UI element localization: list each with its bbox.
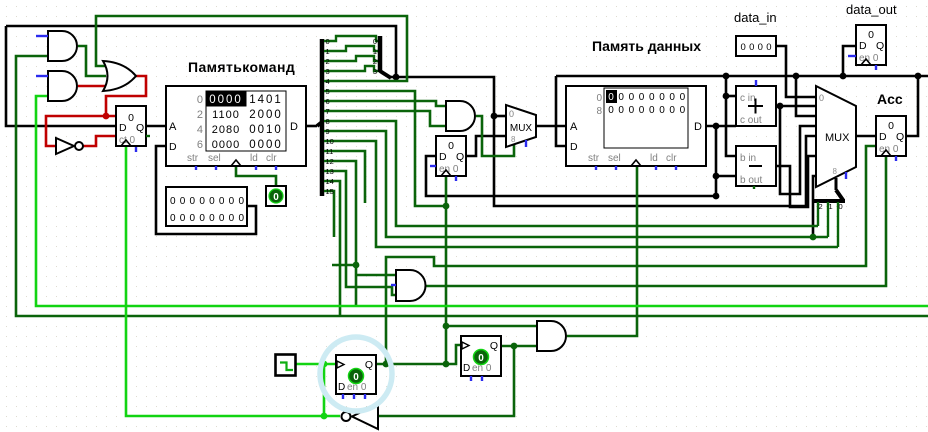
wire bit1 staircase bbox=[326, 46, 380, 51]
svg-text:0: 0 bbox=[819, 93, 824, 103]
node in5 tap bbox=[810, 234, 817, 241]
unconnected pin stub FF1 clr bbox=[455, 176, 457, 181]
svg-text:D: D bbox=[694, 121, 702, 133]
subtractor SUB1 bbox=[736, 146, 776, 189]
pin data_in bbox=[734, 10, 777, 56]
unconnected pin stub FF2 south pin bbox=[470, 376, 472, 381]
svg-text:0: 0 bbox=[448, 140, 454, 152]
wire bit6 to AND3b in1 bbox=[326, 101, 446, 106]
wire AND3 out to Acc clock bbox=[426, 156, 886, 286]
unconnected pin stub FF3 south pin bbox=[364, 394, 366, 399]
wire counter Q to ROM A bbox=[146, 125, 166, 128]
wire ROM D-out to SPL1 bbox=[306, 125, 317, 128]
wire AND1 out to OR1 bbox=[78, 46, 106, 76]
NOT gate NOT1 bbox=[56, 138, 74, 154]
svg-text:2: 2 bbox=[197, 109, 203, 121]
node adder A branch bbox=[723, 93, 730, 100]
multiplexer MUX1 (address select) bbox=[506, 105, 536, 147]
counter U1 (program counter) bbox=[116, 106, 150, 146]
svg-text:0: 0 bbox=[629, 105, 635, 116]
svg-text:0: 0 bbox=[273, 192, 279, 203]
wire AND3b out to MUX1 select bbox=[476, 116, 514, 156]
svg-text:0: 0 bbox=[680, 92, 686, 103]
wire y326 to AND4 in1 bbox=[446, 325, 537, 328]
svg-text:0 0 0 0 0 0 0 0: 0 0 0 0 0 0 0 0 bbox=[170, 213, 244, 224]
svg-text:D: D bbox=[570, 141, 578, 153]
svg-text:Q: Q bbox=[456, 151, 464, 163]
node FF3 Q tap x446 bbox=[443, 361, 450, 368]
unconnected pin stub FF2 south pin bbox=[481, 376, 483, 381]
node clock net y206 bbox=[443, 203, 450, 210]
memory RAM1 Память данных bbox=[566, 38, 706, 166]
unconnected pin stub AND3 in2 bbox=[391, 284, 396, 286]
unconnected pin stub data_out clr bbox=[875, 65, 877, 70]
svg-text:clr: clr bbox=[266, 153, 277, 164]
node MUX2 in2 branch bbox=[793, 73, 800, 80]
svg-text:0: 0 bbox=[639, 105, 645, 116]
svg-text:str: str bbox=[187, 153, 199, 164]
wire RAM D-out bbox=[706, 125, 736, 128]
unconnected pin stub AND2 in1 bbox=[36, 75, 48, 77]
unconnected pin stub Acc clr bbox=[895, 156, 897, 161]
svg-text:D: D bbox=[290, 121, 298, 133]
unconnected pin stub FF3 south pin bbox=[353, 394, 355, 399]
svg-text:data_in: data_in bbox=[734, 10, 777, 25]
svg-text:9: 9 bbox=[326, 127, 330, 136]
svg-text:D: D bbox=[463, 363, 470, 374]
AND gate AND2 bbox=[48, 71, 77, 101]
wire FF3 Q to FF2 D bbox=[376, 345, 461, 364]
svg-text:6: 6 bbox=[197, 139, 203, 151]
wire NOT1 out (red) bbox=[83, 136, 116, 146]
wire AND2 in2 / y306 line bbox=[36, 96, 928, 306]
wire select leg0 bbox=[837, 202, 839, 247]
svg-text:Q: Q bbox=[136, 122, 144, 134]
svg-text:0: 0 bbox=[128, 112, 134, 124]
svg-text:1: 1 bbox=[829, 202, 833, 211]
wire sub out U loop to MUX2 in bbox=[776, 156, 816, 207]
svg-text:b in: b in bbox=[740, 153, 756, 164]
svg-text:8: 8 bbox=[596, 106, 602, 117]
node FF2 Q tap bbox=[511, 343, 518, 350]
svg-text:0: 0 bbox=[669, 105, 675, 116]
splitter SPL1 16-bit fanout bbox=[317, 37, 334, 196]
unconnected pin stub RAM ctrl pin bbox=[595, 166, 597, 170]
wire FF2 Q to AND4 in2 bbox=[501, 345, 537, 348]
AND gate AND4 bbox=[537, 321, 566, 351]
svg-text:4: 4 bbox=[197, 124, 203, 136]
unconnected pin stub MUX2 enable bbox=[845, 172, 847, 179]
svg-text:0: 0 bbox=[839, 202, 843, 211]
svg-text:1: 1 bbox=[326, 47, 330, 56]
svg-text:sel: sel bbox=[608, 153, 621, 164]
wire AND3 in1 feed bbox=[356, 274, 396, 277]
svg-text:0: 0 bbox=[649, 105, 655, 116]
svg-text:1401: 1401 bbox=[249, 94, 283, 106]
svg-text:clr: clr bbox=[666, 153, 677, 164]
node Acc Q feedback bbox=[915, 73, 922, 80]
node bit12 tap bbox=[353, 262, 360, 269]
svg-text:ld: ld bbox=[650, 153, 658, 164]
svg-text:0: 0 bbox=[680, 105, 686, 116]
unconnected pin stub counter clr bbox=[135, 147, 137, 152]
svg-text:8: 8 bbox=[833, 167, 838, 176]
svg-text:Памятькоманд: Памятькоманд bbox=[188, 59, 295, 75]
svg-text:en 0: en 0 bbox=[472, 363, 492, 374]
node clock tap bbox=[321, 361, 328, 368]
svg-text:0: 0 bbox=[649, 92, 655, 103]
svg-text:Q: Q bbox=[876, 40, 884, 52]
wire bit15 down to y306 bbox=[326, 191, 334, 237]
wire Acc bus y=76 bbox=[556, 75, 928, 78]
wire Acc Q to bus bbox=[906, 76, 918, 136]
svg-text:Память данных: Память данных bbox=[592, 38, 701, 54]
unconnected pin stub data_out en bbox=[848, 55, 856, 57]
node bus to MUX1 in0 bbox=[491, 113, 498, 120]
wire b-in2 feed bbox=[716, 175, 736, 178]
svg-text:1100: 1100 bbox=[212, 109, 240, 121]
wire clock CLK1 to FF3 bbox=[295, 363, 336, 366]
pin PIN0 value 0 bbox=[266, 186, 286, 206]
svg-text:2: 2 bbox=[819, 202, 823, 211]
wire counter clock from y416 bbox=[126, 147, 340, 416]
unconnected pin stub ROM ctrl pin bbox=[215, 166, 217, 170]
wire ROM clock to pin bbox=[236, 166, 276, 186]
svg-text:7: 7 bbox=[326, 107, 330, 116]
wire bit8 to select leg2 y226 bbox=[326, 121, 818, 226]
svg-text:0000: 0000 bbox=[249, 139, 283, 151]
wire MUX2 out to Acc D bbox=[856, 135, 876, 138]
svg-text:0: 0 bbox=[669, 92, 675, 103]
node y196 end at x716 bbox=[713, 193, 720, 200]
svg-text:0: 0 bbox=[629, 92, 635, 103]
wire bit4 top line y16 bbox=[96, 16, 407, 81]
svg-text:14: 14 bbox=[326, 177, 334, 186]
adder ADD1 bbox=[736, 86, 776, 126]
svg-text:D: D bbox=[859, 40, 867, 52]
selection halo around FF3 bbox=[320, 337, 392, 411]
svg-text:8: 8 bbox=[326, 117, 330, 126]
unconnected pin stub FF3 south pin bbox=[342, 394, 344, 399]
wire MUX1 in0 feed bbox=[494, 115, 506, 118]
wire Acc bus to MUX2 in2 bbox=[796, 76, 816, 116]
svg-text:0: 0 bbox=[868, 29, 874, 41]
multiplexer MUX2 (ALU result select) bbox=[816, 86, 856, 187]
wire MUX2 in5 feed bbox=[813, 176, 816, 237]
unconnected pin stub ROM ctrl pin bbox=[195, 166, 197, 170]
wire AND4 out to RAM clock bbox=[567, 166, 637, 336]
AND gate AND3 (bottom) bbox=[396, 270, 426, 301]
wire ROM D-in loop via probe bbox=[156, 146, 256, 234]
svg-text:0: 0 bbox=[618, 105, 624, 116]
wire adder A feed bbox=[726, 95, 736, 98]
wire FF2 Q down to NOT2 input bbox=[378, 346, 514, 416]
memory ROM1 Памятькоманд bbox=[166, 59, 306, 166]
svg-text:Q: Q bbox=[896, 131, 904, 143]
svg-text:A: A bbox=[570, 121, 578, 133]
svg-text:6: 6 bbox=[326, 97, 330, 106]
svg-text:11: 11 bbox=[326, 147, 334, 156]
wire OR1 out loop (red) bbox=[106, 76, 146, 116]
svg-text:12: 12 bbox=[326, 157, 334, 166]
svg-text:b out: b out bbox=[740, 175, 762, 186]
unconnected pin stub MUX1 enable bbox=[525, 140, 527, 147]
svg-text:str: str bbox=[588, 153, 600, 164]
svg-text:Acc: Acc bbox=[877, 91, 903, 107]
unconnected pin stub ROM ctrl pin bbox=[275, 166, 277, 170]
wire bit10 to select leg0 y247 bbox=[326, 141, 838, 247]
D flip-flop FF2 bbox=[461, 336, 501, 376]
svg-text:D: D bbox=[439, 151, 447, 163]
svg-text:5: 5 bbox=[326, 87, 330, 96]
svg-text:0: 0 bbox=[326, 37, 330, 46]
svg-text:0000: 0000 bbox=[209, 94, 243, 106]
svg-text:MUX: MUX bbox=[510, 123, 533, 134]
svg-text:0: 0 bbox=[509, 109, 514, 119]
svg-text:13: 13 bbox=[326, 167, 334, 176]
svg-text:A: A bbox=[169, 121, 177, 133]
probe PROBE1 (16-bit instruction view) bbox=[166, 187, 247, 226]
D flip-flop FF1 bbox=[436, 136, 466, 176]
wire select leg2 bbox=[817, 202, 819, 226]
wire RAM D-in feed bbox=[556, 76, 566, 146]
node data_in column junction bbox=[723, 73, 730, 80]
unconnected pin stub AND1 in1 bbox=[36, 35, 48, 37]
wire FF1 D wrap and y196 line bbox=[426, 156, 716, 196]
svg-text:0: 0 bbox=[618, 92, 624, 103]
wire bus top from counter-D loop bbox=[6, 26, 396, 77]
svg-text:c out: c out bbox=[740, 115, 762, 126]
D flip-flop DATA_OUT bbox=[856, 25, 886, 65]
wire bit0 staircase bbox=[326, 36, 380, 41]
svg-text:0: 0 bbox=[659, 105, 665, 116]
D flip-flop FF3 bbox=[336, 355, 376, 394]
unconnected pin stub RAM ctrl pin bbox=[675, 166, 677, 170]
wire bit9 to select leg1 y237 bbox=[326, 131, 828, 237]
wire bit13 to AND3 in3 bbox=[326, 171, 396, 295]
wire x716 vertical bbox=[715, 126, 718, 196]
svg-text:c in: c in bbox=[740, 93, 756, 104]
AND gate AND3b (mux1 select) bbox=[446, 101, 475, 131]
svg-text:Q: Q bbox=[490, 340, 498, 352]
svg-text:0: 0 bbox=[197, 94, 203, 106]
svg-text:D: D bbox=[119, 122, 127, 134]
node data_out branch bbox=[840, 73, 847, 80]
svg-text:0: 0 bbox=[888, 120, 894, 132]
node RAM D-out junction x716 bbox=[713, 123, 720, 130]
wire AND2 out (red) bbox=[78, 85, 106, 88]
wire bit2 staircase bbox=[326, 56, 380, 61]
svg-text:0 0 0 0: 0 0 0 0 bbox=[741, 42, 772, 53]
splitter SPL3 bar bbox=[814, 199, 845, 203]
node clock net y326 bbox=[443, 323, 450, 330]
svg-text:15: 15 bbox=[326, 187, 334, 196]
wire MUX2 select stem bbox=[835, 178, 838, 190]
wire red to NOT1 bbox=[46, 116, 106, 146]
unconnected pin stub adder carry-in bbox=[755, 80, 757, 86]
wire bit12 to AND3 bbox=[326, 161, 356, 306]
svg-text:2080: 2080 bbox=[212, 124, 240, 136]
svg-text:4: 4 bbox=[326, 77, 330, 86]
OR gate OR1 bbox=[103, 61, 136, 91]
wire FF1 clock net x446 bbox=[445, 176, 448, 364]
wire AND1 in2 / y316 line bbox=[16, 56, 928, 316]
splitter SPL2 4-bit recombine bbox=[373, 36, 391, 78]
svg-text:0 0 0 0 0 0 0 0: 0 0 0 0 0 0 0 0 bbox=[170, 196, 244, 207]
AND gate AND1 bbox=[48, 31, 77, 61]
svg-text:0010: 0010 bbox=[249, 124, 283, 136]
node bus junction at splitter SPL2 bbox=[393, 74, 400, 81]
wire data_out D feed bbox=[843, 46, 856, 76]
wire bus mid bbox=[390, 77, 816, 206]
svg-text:0: 0 bbox=[608, 92, 614, 103]
wire y265 stub bbox=[332, 264, 356, 267]
unconnected pin stub FF1 en bbox=[430, 165, 436, 167]
svg-text:en 0: en 0 bbox=[347, 382, 367, 393]
svg-text:2: 2 bbox=[326, 57, 330, 66]
svg-text:MUX: MUX bbox=[825, 132, 850, 144]
svg-text:0: 0 bbox=[639, 92, 645, 103]
wire clock down x324 bbox=[323, 364, 326, 416]
svg-text:10: 10 bbox=[326, 137, 334, 146]
node FF3 Q tap x386 bbox=[383, 361, 390, 368]
wire adder out to MUX2 in1 bbox=[776, 105, 816, 108]
D flip-flop ACC bbox=[876, 116, 906, 156]
splitter SPL3 diagonal bbox=[836, 190, 843, 200]
svg-text:0: 0 bbox=[608, 105, 614, 116]
svg-text:3: 3 bbox=[373, 67, 377, 76]
NOT gate NOT2 (points left) bbox=[352, 404, 378, 429]
svg-text:1: 1 bbox=[373, 47, 377, 56]
wire MUX1 out to RAM A bbox=[536, 125, 566, 128]
unconnected pin stub ROM ctrl pin bbox=[255, 166, 257, 170]
node adder out branch bbox=[777, 103, 784, 110]
node b-in2 branch bbox=[713, 173, 720, 180]
svg-text:0000: 0000 bbox=[212, 139, 240, 151]
wire bit5 to FF1-clock net bbox=[326, 91, 443, 206]
unconnected pin stub RAM ctrl pin bbox=[655, 166, 657, 170]
wire select leg1 bbox=[827, 202, 829, 237]
wire bit3 staircase bbox=[326, 66, 380, 71]
svg-text:ld: ld bbox=[250, 153, 258, 164]
svg-text:Q: Q bbox=[365, 359, 373, 371]
svg-text:8: 8 bbox=[511, 135, 516, 144]
svg-text:sel: sel bbox=[208, 153, 221, 164]
wire adder out U loop to MUX2 in bbox=[780, 106, 816, 194]
wire bit11 stub bbox=[326, 151, 365, 203]
svg-text:D: D bbox=[338, 382, 345, 393]
svg-text:0: 0 bbox=[659, 92, 665, 103]
svg-text:3: 3 bbox=[326, 67, 330, 76]
svg-text:D: D bbox=[169, 141, 177, 153]
svg-text:2000: 2000 bbox=[249, 109, 283, 121]
svg-text:0: 0 bbox=[373, 37, 377, 46]
node red junction bbox=[103, 113, 110, 120]
wire bit7 to AND3b in2 bbox=[326, 111, 446, 126]
wire FF3 Q up to Acc enable y266 bbox=[386, 146, 876, 364]
svg-text:data_out: data_out bbox=[846, 2, 897, 17]
unconnected pin stub RAM ctrl pin bbox=[615, 166, 617, 170]
wire FF1 Q to MUX1 in1 bbox=[466, 136, 506, 156]
svg-text:D: D bbox=[879, 131, 887, 143]
wire Acc operand column x726 bbox=[726, 76, 736, 156]
wire bit14 down to y316 bbox=[326, 181, 340, 316]
clock CLK1 bbox=[276, 355, 296, 376]
svg-text:0: 0 bbox=[596, 93, 602, 104]
node NOT2 output junction bbox=[321, 413, 328, 420]
svg-text:2: 2 bbox=[373, 57, 377, 66]
wire data_in to MUX2 in0 bbox=[776, 46, 816, 97]
